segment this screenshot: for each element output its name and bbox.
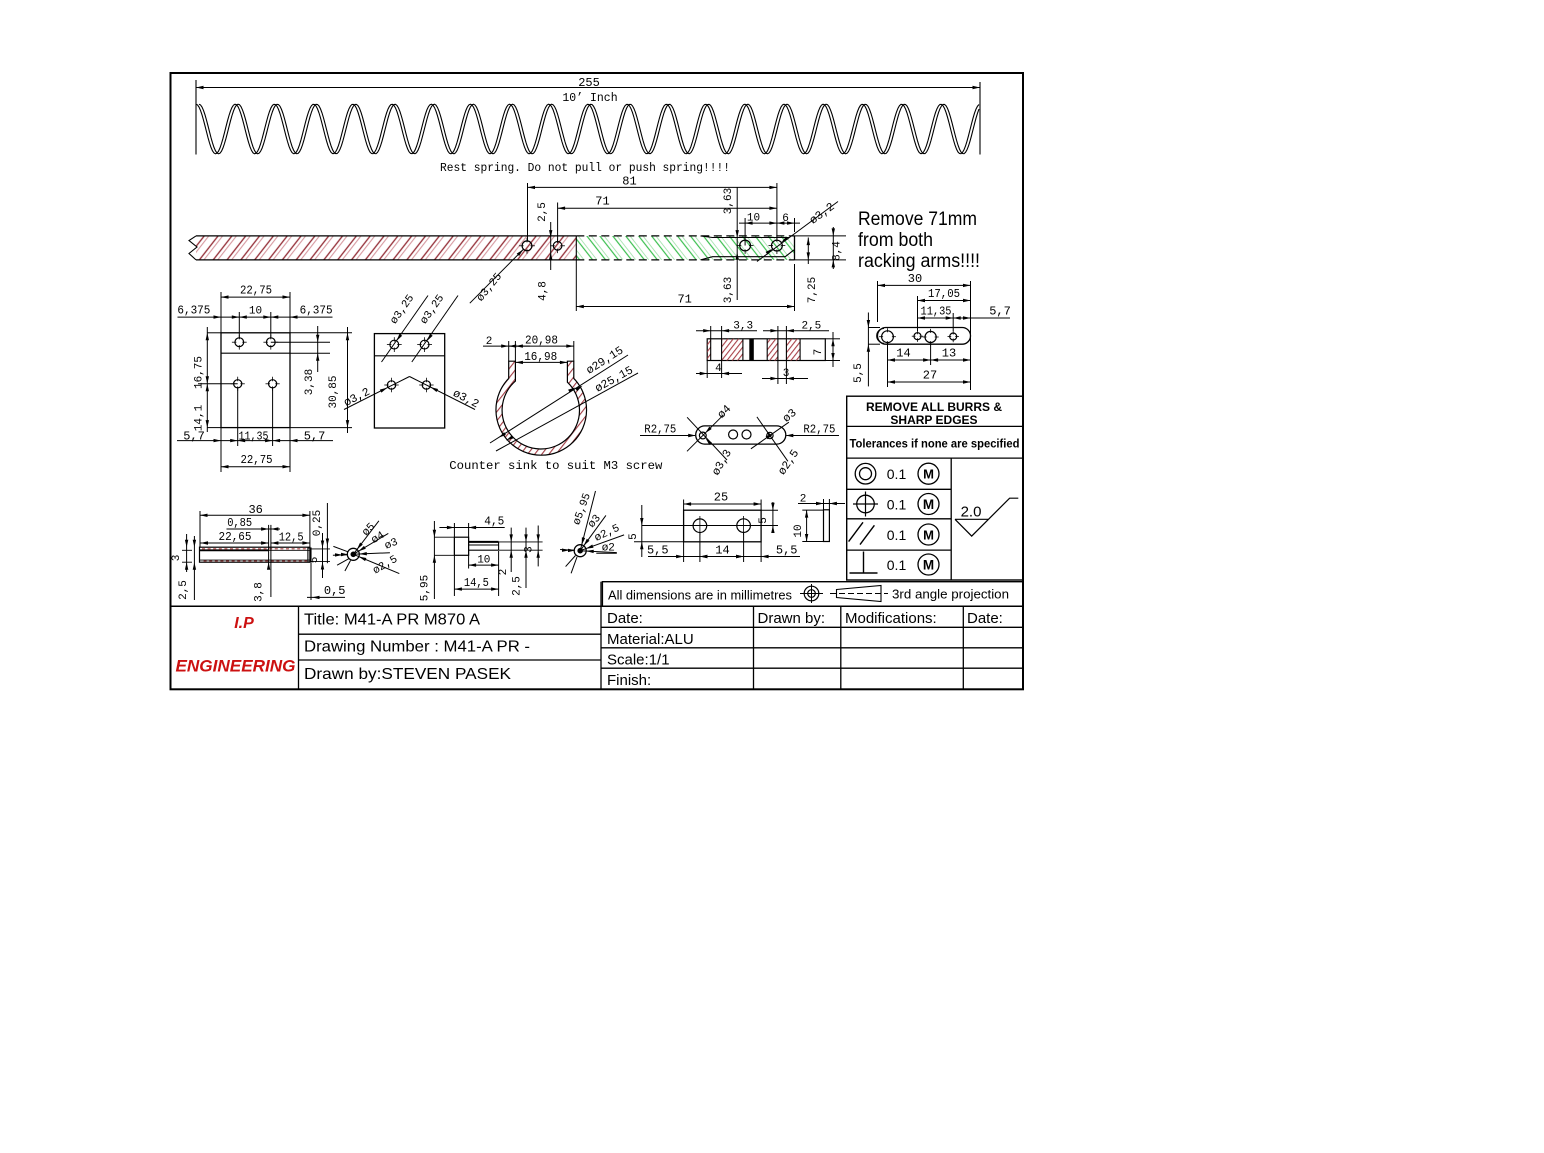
leader dia 3,2 plate B left <box>344 377 410 410</box>
dim 13 link <box>931 359 971 361</box>
dim 3 bar <box>777 361 779 385</box>
svg-text:Tolerances if none are specifi: Tolerances if none are specified <box>850 437 1020 451</box>
dim 5,7 11,35 5,7 <box>237 388 239 446</box>
dim 36 <box>199 511 201 547</box>
dim 4,8 arm <box>550 222 552 270</box>
tolerance box frame <box>847 396 1023 580</box>
dim 12,5 <box>271 542 310 544</box>
hole plate A 2 <box>266 338 275 347</box>
svg-text:81: 81 <box>622 174 636 188</box>
svg-text:5: 5 <box>309 557 321 564</box>
pin head <box>454 537 468 555</box>
dim 3,63 bottom <box>736 252 739 259</box>
svg-text:Drawn by:: Drawn by: <box>758 610 826 627</box>
leader dia 3 <box>751 422 789 449</box>
dim 10 and 6 arm <box>744 218 746 246</box>
hole plate A 3 <box>234 380 242 388</box>
dim 0,25 rod <box>326 503 328 563</box>
rod end view side lines <box>333 554 347 557</box>
svg-text:2,5: 2,5 <box>801 320 821 332</box>
svg-text:racking arms!!!!: racking arms!!!! <box>858 251 980 272</box>
dim 71 bottom <box>575 260 577 311</box>
dim 7,25 <box>807 238 809 265</box>
svg-text:16,98: 16,98 <box>524 350 557 364</box>
racking arm red hatched section <box>196 236 576 260</box>
svg-text:Finish:: Finish: <box>607 672 651 689</box>
leader R2,75 left <box>640 435 695 437</box>
svg-text:from both: from both <box>858 230 933 251</box>
svg-text:71: 71 <box>677 293 691 307</box>
svg-text:4,8: 4,8 <box>538 281 550 301</box>
dim 7 bar <box>825 338 840 340</box>
svg-text:R2,75: R2,75 <box>644 423 676 437</box>
dim 5,5 plate25 left <box>683 542 685 562</box>
tolerance row 4 perpendicularity <box>863 552 865 574</box>
link R275 body <box>696 426 786 444</box>
third angle cone symbol <box>837 586 882 602</box>
rod outline <box>200 547 310 562</box>
dim 3 rod <box>186 534 188 572</box>
target symbol <box>804 586 819 601</box>
svg-text:4,5: 4,5 <box>484 514 504 528</box>
hole plate B 3 <box>387 381 395 389</box>
hole arm B <box>553 242 562 251</box>
svg-text:10: 10 <box>477 554 490 566</box>
svg-text:3: 3 <box>783 368 790 380</box>
svg-text:36: 36 <box>248 503 262 517</box>
svg-text:2: 2 <box>800 493 807 505</box>
svg-text:I.P: I.P <box>234 615 254 632</box>
svg-text:5: 5 <box>628 533 640 540</box>
slotted link body <box>878 328 971 345</box>
racking arm dashed outline green part <box>576 235 794 237</box>
svg-text:14,1: 14,1 <box>194 404 206 431</box>
svg-text:5,7: 5,7 <box>989 304 1011 318</box>
svg-text:3: 3 <box>171 555 183 562</box>
svg-text:10: 10 <box>249 305 262 317</box>
pin end leader dia 5,95 <box>580 491 595 551</box>
dim 16,75 and 14,1 <box>206 327 208 432</box>
svg-text:5: 5 <box>758 517 770 524</box>
dim 255 <box>196 87 980 89</box>
svg-text:M: M <box>923 467 934 482</box>
dim 5,5 link <box>868 327 880 329</box>
leader dia 25,15 <box>496 373 638 451</box>
pin end leader dia 2,5 <box>580 535 624 551</box>
svg-text:12,5: 12,5 <box>279 530 304 544</box>
dim 2,5 bar <box>777 326 779 339</box>
svg-text:10: 10 <box>747 213 760 225</box>
svg-text:Date:: Date: <box>607 610 643 627</box>
svg-text:Drawn by:STEVEN PASEK: Drawn by:STEVEN PASEK <box>304 666 511 683</box>
svg-text:71: 71 <box>595 195 609 209</box>
svg-text:25: 25 <box>714 491 728 505</box>
svg-text:M: M <box>923 528 934 543</box>
rod red hatch dashes <box>202 548 307 550</box>
leader R2,75 right <box>787 435 840 437</box>
plate A fold line <box>221 352 290 354</box>
hole R275 right <box>767 432 773 438</box>
dim 8,4 <box>795 235 847 237</box>
pin end leader dia 2 <box>580 551 617 553</box>
svg-text:SHARP EDGES: SHARP EDGES <box>890 413 977 427</box>
section bar hatched segments <box>707 339 711 361</box>
hole plate B 4 <box>422 381 430 389</box>
pin end view side lines <box>560 549 574 552</box>
tolerance row 1 concentricity <box>855 463 876 484</box>
section bar dividers <box>710 339 712 361</box>
pin shaft <box>469 541 499 543</box>
hole link 1 <box>882 331 894 343</box>
dim 2 strip <box>823 499 825 510</box>
tolerance row 3 parallelism <box>849 522 863 541</box>
dim 0,85 <box>227 528 281 530</box>
svg-text:5,95: 5,95 <box>420 575 432 601</box>
hole link 2 <box>914 333 921 340</box>
dim 22,75 top <box>220 292 222 333</box>
svg-text:2,5: 2,5 <box>537 202 549 222</box>
plate B fold line <box>374 355 444 357</box>
svg-text:3,3: 3,3 <box>733 320 753 332</box>
dim 5 plate25 right <box>761 509 778 511</box>
dim 22,65 <box>201 542 269 544</box>
dim 22,75 bottom <box>220 446 222 472</box>
hole plate B 1 <box>390 340 399 349</box>
spring coil <box>196 104 979 154</box>
svg-text:3,63: 3,63 <box>723 188 735 214</box>
dim 81 <box>527 183 529 241</box>
svg-text:2: 2 <box>498 569 510 576</box>
svg-text:Date:: Date: <box>967 610 1003 627</box>
hole plate25 2 <box>737 519 751 533</box>
svg-text:8,4: 8,4 <box>832 241 844 261</box>
svg-text:14: 14 <box>896 346 910 360</box>
leader dia 3,25 plate B right <box>412 296 458 363</box>
hole R275 mid 1 <box>729 430 738 439</box>
svg-text:2,5: 2,5 <box>178 580 190 600</box>
dim 30,85 <box>290 332 352 334</box>
racking arm inner cut outline <box>701 236 790 238</box>
dim 11,35 link <box>952 313 954 331</box>
svg-text:13: 13 <box>942 346 956 360</box>
svg-text:Counter sink to suit M3 screw: Counter sink to suit M3 screw <box>449 459 663 473</box>
dim 2,5 rod <box>193 536 195 600</box>
plate B outline <box>374 334 444 428</box>
svg-text:3,63: 3,63 <box>723 277 735 303</box>
hole arm A <box>522 241 532 251</box>
dim 5 plate25 left <box>641 505 643 557</box>
leader dia 3,2 arm <box>757 202 838 262</box>
dim 5,95 pin <box>433 521 435 599</box>
svg-text:0,5: 0,5 <box>324 584 346 598</box>
plate 25 midline <box>642 525 778 527</box>
rod end leader dia 4 <box>353 533 388 554</box>
hole plate B 2 <box>420 340 429 349</box>
pin end leader dia 3 <box>580 515 606 550</box>
hole R275 left <box>699 432 706 439</box>
racking arm boundary line <box>575 236 577 260</box>
dim 5,7 link <box>953 317 1010 319</box>
hole R275 mid 2 <box>742 430 751 439</box>
rod end view circle <box>347 548 359 560</box>
svg-text:3rd angle projection: 3rd angle projection <box>892 588 1009 602</box>
hole plate A 1 <box>235 338 244 347</box>
svg-text:M: M <box>923 497 934 512</box>
svg-text:11,35: 11,35 <box>239 429 269 443</box>
svg-text:Drawing Number : M41-A PR -: Drawing Number : M41-A PR - <box>304 639 530 656</box>
hole plate25 1 <box>693 519 707 533</box>
dim 10 pin <box>498 551 500 596</box>
dim 17,05 <box>917 296 919 331</box>
svg-text:Modifications:: Modifications: <box>845 610 937 627</box>
svg-text:11,35: 11,35 <box>921 304 952 318</box>
svg-text:0.1: 0.1 <box>887 557 907 573</box>
dim 3,3 <box>710 326 712 339</box>
dim 0,85 extension lines <box>268 525 270 569</box>
hole plate A 4 <box>269 380 277 388</box>
dim 2,5 pin <box>525 528 527 588</box>
hole arm C <box>740 240 751 251</box>
svg-text:5,5: 5,5 <box>647 543 669 557</box>
svg-text:M: M <box>923 558 934 573</box>
svg-text:22,65: 22,65 <box>219 530 252 544</box>
svg-text:2,5: 2,5 <box>511 576 523 596</box>
rod inner bore lines <box>200 549 269 551</box>
dim 6,375 10 6,375 <box>238 312 240 338</box>
dim 14 plate25 <box>743 533 745 563</box>
leader dia 2,5 link <box>757 417 788 461</box>
svg-text:7,25: 7,25 <box>807 277 819 303</box>
svg-text:ENGINEERING: ENGINEERING <box>176 658 296 676</box>
rod end leader dia 5 <box>353 521 379 555</box>
section bar thick divider <box>749 339 754 361</box>
dim 3,63 top <box>736 187 738 300</box>
svg-text:4: 4 <box>715 363 722 375</box>
svg-text:2: 2 <box>486 336 493 348</box>
dim 2 pin <box>510 528 512 572</box>
svg-text:14: 14 <box>715 543 729 557</box>
svg-text:20,98: 20,98 <box>525 333 558 347</box>
svg-text:16,75: 16,75 <box>194 356 206 389</box>
dim 2 ring <box>508 341 510 361</box>
svg-text:22,75: 22,75 <box>240 284 272 298</box>
title block grid <box>171 605 1024 607</box>
hole arm D <box>772 240 783 251</box>
svg-text:3,38: 3,38 <box>304 369 316 395</box>
leader dia 3,3 <box>687 417 727 460</box>
dim 255 extension line right <box>979 82 981 155</box>
drawing border frame <box>171 73 1024 689</box>
svg-text:0.1: 0.1 <box>887 496 907 512</box>
svg-text:7: 7 <box>813 349 825 356</box>
dim 0,5 rod <box>310 563 312 600</box>
dim 3,38 <box>271 341 330 343</box>
leader dia 3,2 plate B right <box>410 377 476 410</box>
pin end view circle <box>574 545 586 557</box>
all dimensions strip box <box>602 582 1023 607</box>
svg-text:R2,75: R2,75 <box>803 423 835 437</box>
svg-text:5,7: 5,7 <box>183 429 205 443</box>
hole link 3 <box>925 331 936 342</box>
dim 20,98 <box>573 341 575 361</box>
svg-text:All dimensions are in millimet: All dimensions are in millimetres <box>608 589 792 603</box>
svg-text:5,5: 5,5 <box>776 543 798 557</box>
svg-text:10’ Inch: 10’ Inch <box>562 92 617 105</box>
dim 3 pin <box>537 526 539 567</box>
racking arm right edge <box>794 236 796 260</box>
svg-text:5,7: 5,7 <box>304 429 326 443</box>
hole link 4 <box>950 333 957 340</box>
svg-text:5,5: 5,5 <box>853 363 865 383</box>
dim 16,98 <box>515 361 567 363</box>
svg-text:10: 10 <box>793 524 805 537</box>
pin end dia2 underline <box>596 552 617 554</box>
rod end leader dia 3 <box>353 553 390 555</box>
dim 27 link <box>888 381 971 383</box>
svg-text:REMOVE ALL BURRS &: REMOVE ALL BURRS & <box>866 400 1002 414</box>
svg-text:17,05: 17,05 <box>928 287 960 301</box>
svg-text:30,85: 30,85 <box>328 375 340 408</box>
dim 255 extension line left <box>195 80 197 155</box>
dim 14 link <box>887 343 889 387</box>
rod end cap <box>308 548 311 562</box>
plate A outline <box>221 333 290 428</box>
leader dia 29,15 <box>490 355 628 443</box>
dim 5,5 plate25 right <box>760 542 762 562</box>
svg-text:0,25: 0,25 <box>312 510 324 536</box>
svg-text:0.1: 0.1 <box>887 466 907 482</box>
strip side view <box>824 510 830 542</box>
svg-text:14,5: 14,5 <box>464 576 489 590</box>
svg-text:Remove 71mm: Remove 71mm <box>858 209 977 230</box>
svg-text:Title: M41-A PR M870 A: Title: M41-A PR M870 A <box>304 612 480 629</box>
leader dia 3,25 plate B left <box>382 296 429 363</box>
plate 25 outline <box>684 510 762 542</box>
section bar outline <box>707 339 825 361</box>
svg-text:2.0: 2.0 <box>961 504 982 521</box>
dim 10 strip <box>802 509 823 511</box>
svg-text:255: 255 <box>578 76 600 90</box>
svg-text:Material:ALU: Material:ALU <box>607 631 694 648</box>
racking arm break zigzag <box>189 236 197 260</box>
tolerance row 2 position <box>857 495 875 513</box>
svg-text:6,375: 6,375 <box>300 303 333 317</box>
svg-text:6,375: 6,375 <box>177 303 210 317</box>
racking arm green hatched section <box>576 236 794 260</box>
dim 4,5 pin <box>453 523 455 596</box>
svg-text:0.1: 0.1 <box>887 527 907 543</box>
leader dia 3,25 arm <box>470 250 523 304</box>
svg-text:22,75: 22,75 <box>241 453 273 467</box>
svg-text:30: 30 <box>908 272 922 286</box>
svg-text:Scale:1/1: Scale:1/1 <box>607 652 670 669</box>
countersink ring body <box>496 361 587 455</box>
pin right extension lines <box>499 541 543 543</box>
svg-text:3: 3 <box>523 546 535 553</box>
dim 14,5 pin <box>454 588 498 590</box>
dim 71 top <box>557 203 559 242</box>
dim 4 bar <box>706 361 708 379</box>
rod end leader dia 2,5 <box>353 554 399 573</box>
dim 25 <box>683 500 685 511</box>
dim 30 link <box>877 281 879 322</box>
svg-text:Rest spring. Do not pull or pu: Rest spring. Do not pull or push spring!… <box>440 161 730 175</box>
dim 5 rod end <box>322 533 324 578</box>
svg-text:27: 27 <box>923 368 937 382</box>
leader dia 4 <box>687 415 724 452</box>
svg-text:3,8: 3,8 <box>253 582 265 602</box>
svg-text:0,85: 0,85 <box>227 516 252 530</box>
racking arm outline solid part <box>196 235 576 237</box>
svg-text:6: 6 <box>782 213 789 225</box>
